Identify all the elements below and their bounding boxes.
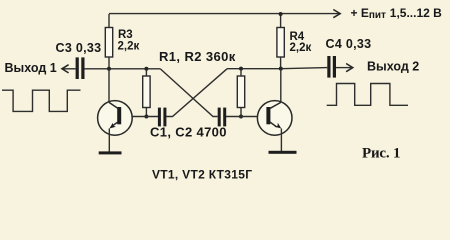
capacitor C4 — [327, 56, 336, 78]
wire: R3 bottom to VT1 collector node — [108, 57, 110, 69]
ground (VT2 emitter) — [269, 151, 297, 154]
wire: +V top rail — [109, 13, 339, 15]
label R4 2,2k — [290, 31, 312, 54]
wire: VT2 base line — [226, 116, 268, 118]
node: R3 / collector VT1 junction — [107, 67, 111, 71]
node: R4 / collector VT2 junction — [279, 67, 283, 71]
wire: R2 bottom to base line — [240, 108, 242, 117]
wire: VT1 emitter to ground — [108, 129, 110, 152]
svg-text:2,2к: 2,2к — [118, 40, 140, 52]
svg-text:R1, R2 360к: R1, R2 360к — [159, 49, 236, 64]
resistor R3 — [105, 28, 112, 58]
node: rail / R4 junction — [279, 12, 283, 16]
waveform output 1 (square wave) — [2, 90, 81, 111]
wire: diagonal VT1 collector to C2 — [161, 69, 218, 117]
wire: VT1 base line — [120, 116, 158, 118]
arrowhead to +V supply — [333, 10, 340, 18]
wire: rail down to R3 — [108, 14, 110, 28]
resistor R4 — [277, 28, 284, 58]
svg-text:С1, С2 4700: С1, С2 4700 — [150, 125, 227, 140]
label R3 2,2k — [118, 29, 140, 53]
node: R2 / base VT2 junction — [239, 115, 243, 119]
wire: VT2 emitter to ground — [280, 129, 282, 152]
svg-text:R3: R3 — [118, 29, 133, 41]
wire: C4 output lead — [336, 67, 351, 69]
wire: collector VT1 down to transistor — [108, 69, 110, 103]
svg-text:Выход 1: Выход 1 — [5, 61, 57, 75]
svg-text:С3 0,33: С3 0,33 — [56, 41, 102, 55]
arrowhead output 1 — [62, 65, 69, 73]
transistor VT2 — [257, 101, 292, 136]
node: R1 / base VT1 junction — [144, 115, 148, 119]
wire: collector VT2 down to transistor — [280, 69, 282, 103]
wire: R1 top stub — [145, 69, 147, 76]
wire: R4 bottom to VT2 collector node — [280, 57, 282, 69]
svg-text:VT1, VT2 КТ315Г: VT1, VT2 КТ315Г — [152, 168, 252, 182]
resistor R2 — [237, 76, 244, 108]
wire: R1 bottom to base line — [145, 108, 147, 117]
node: R1 top junction — [144, 67, 148, 71]
waveform output 2 (square wave) — [327, 84, 408, 106]
transistor VT1 — [98, 101, 133, 136]
arrowhead output 2 — [346, 64, 353, 72]
svg-text:Рис. 1: Рис. 1 — [362, 146, 400, 162]
svg-text:Выход 2: Выход 2 — [367, 60, 419, 74]
wire: VT2 collector line from diagonal bend to C4 — [227, 68, 327, 69]
node: R2 top junction — [239, 67, 243, 71]
svg-text:2,2к: 2,2к — [290, 42, 312, 54]
ground (VT1 emitter) — [99, 151, 122, 154]
wire: R2 top stub — [240, 69, 242, 76]
resistor R1 — [143, 76, 150, 108]
label +Epit supply — [351, 6, 443, 21]
svg-text:+ Епит 1,5...12 В: + Епит 1,5...12 В — [351, 6, 443, 21]
capacitor C1 — [158, 108, 167, 127]
wire: C3 output lead — [63, 68, 76, 70]
capacitor C2 — [218, 108, 227, 127]
wire: diagonal VT2 collector to C1 — [166, 69, 228, 117]
capacitor C3 — [76, 57, 85, 79]
wire: VT1 collector line from C3 to diagonal bend — [85, 68, 161, 70]
wire: rail down to R4 — [280, 14, 282, 28]
svg-text:С4 0,33: С4 0,33 — [326, 37, 372, 51]
